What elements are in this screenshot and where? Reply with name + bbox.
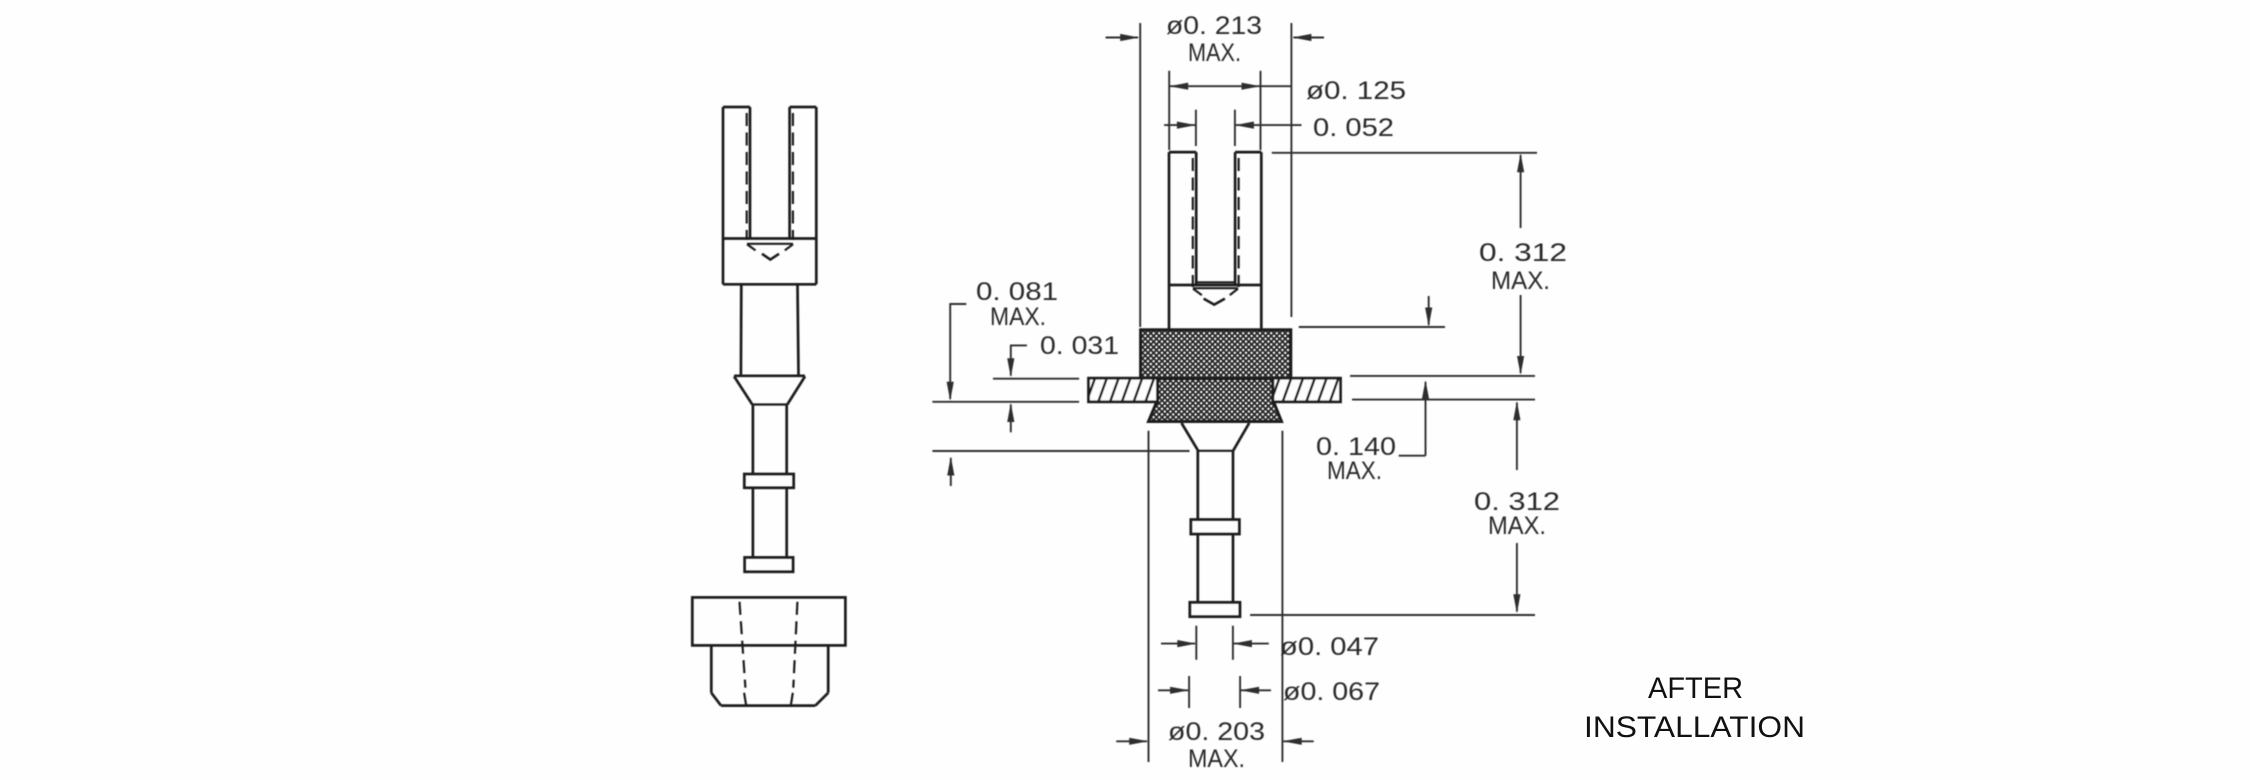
- dimension Ø0.125: extension lines above fork: [1169, 71, 1260, 150]
- left view: retention flange: [744, 474, 793, 488]
- middle view: panel left section (section-hatched): [1089, 378, 1158, 402]
- middle view: fork right prong: [1235, 152, 1261, 285]
- dimension 0.052: left arrow: [1164, 122, 1196, 129]
- left view: lower shaft upper segment: [753, 405, 787, 475]
- svg-text:MAX.: MAX.: [1488, 512, 1546, 540]
- left view: bushing body: [711, 645, 828, 692]
- left view: upper shaft: [741, 284, 799, 375]
- dimension 0.312 MAX top: panel-top extension line right: [1350, 375, 1535, 377]
- left view: lower shaft lower segment: [753, 488, 787, 558]
- middle view: end tip flange: [1190, 602, 1240, 616]
- dimension 0.140 MAX: upper arrow pointing down to bushing top: [1425, 296, 1432, 327]
- dimension Ø0.213 MAX: right extension line: [1290, 23, 1292, 317]
- middle view: retention flange: [1191, 520, 1240, 535]
- svg-text:ø0. 047: ø0. 047: [1280, 633, 1379, 661]
- dimension 0.140 MAX: label: [1316, 433, 1396, 485]
- funnel-bottom extension line left: [932, 450, 1189, 452]
- dimension Ø0.213 MAX: left arrow: [1106, 34, 1140, 41]
- dimension 0.312 MAX bottom: dimension line and arrows: [1513, 401, 1520, 613]
- dimension Ø0.067: extension lines at flange: [1189, 676, 1240, 708]
- middle view: hidden slot line left (dashed): [1192, 158, 1194, 287]
- dimension 0.052: extension lines above slot: [1196, 110, 1235, 146]
- panel-top extension line left: [993, 378, 1079, 380]
- svg-text:MAX.: MAX.: [1188, 39, 1241, 67]
- left view: slot bottom chamfer: [747, 244, 793, 251]
- svg-text:0. 031: 0. 031: [1040, 332, 1119, 360]
- middle view: bushing through panel and flared skirt (cross-hatched): [1149, 379, 1282, 422]
- left view: bushing flange (separate part): [692, 597, 845, 645]
- dimension 0.312 MAX bottom: label: [1474, 488, 1560, 540]
- dimension Ø0.047: extension lines below tip: [1196, 626, 1233, 660]
- middle view: fork left prong: [1169, 152, 1196, 285]
- dimension 0.140 MAX: hatch-top extension line: [1299, 326, 1445, 328]
- dimension 0.081 MAX: label: [976, 278, 1058, 331]
- dimension Ø0.203 MAX: right arrow: [1283, 738, 1314, 745]
- left view: center chevron mark: [762, 254, 779, 260]
- svg-text:0. 312: 0. 312: [1479, 239, 1567, 267]
- middle view: panel right section (section-hatched): [1273, 378, 1341, 402]
- panel-bottom extension line left: [932, 401, 1079, 403]
- dimension Ø0.213 MAX: left extension line: [1139, 23, 1141, 327]
- svg-text:MAX.: MAX.: [1327, 457, 1382, 485]
- svg-text:ø0. 213: ø0. 213: [1166, 12, 1262, 40]
- dimension Ø0.213 MAX: right arrow: [1292, 34, 1324, 41]
- left view: collar block: [723, 239, 816, 285]
- dimension Ø0.203 MAX: left arrow: [1116, 738, 1148, 745]
- left view: bushing hidden bore left (dashed): [740, 602, 746, 688]
- dimension 0.140 MAX: lower arrow pointing up to panel top: [1399, 380, 1429, 456]
- left view: hidden slot line left (dashed): [746, 113, 748, 240]
- dimension 0.031: bracket and down arrow to panel top: [1007, 345, 1027, 377]
- svg-text:AFTER: AFTER: [1648, 672, 1743, 705]
- dimension 0.081 MAX: bracket and down arrow to panel bottom: [947, 304, 967, 401]
- dimension Ø0.067: left arrow: [1158, 687, 1189, 694]
- caption AFTER INSTALLATION: [1584, 672, 1805, 744]
- middle view: knurled bushing flange above panel (cross-hatched): [1141, 330, 1291, 379]
- left view: fork right prong: [790, 107, 817, 239]
- left view: hidden slot line right (dashed): [792, 113, 794, 240]
- middle view: lower shaft lower segment: [1198, 534, 1233, 602]
- svg-text:ø0. 067: ø0. 067: [1283, 678, 1380, 706]
- svg-text:INSTALLATION: INSTALLATION: [1584, 711, 1805, 744]
- svg-text:MAX.: MAX.: [1491, 267, 1550, 295]
- dimension 0.312 MAX bottom: tip-bottom extension line right: [1250, 614, 1535, 616]
- dimension 0.312 MAX bottom: panel-bottom extension line right: [1352, 399, 1535, 401]
- middle view: funnel cone below bushing: [1182, 423, 1250, 451]
- dimension 0.312 MAX top: dimension line and arrows: [1517, 153, 1524, 375]
- dimension 0.052: right arrow: [1235, 122, 1302, 129]
- dimension Ø0.203 MAX: label: [1168, 718, 1265, 773]
- svg-text:MAX.: MAX.: [990, 303, 1046, 331]
- left view: bushing bottom chamfer: [711, 693, 828, 706]
- dimension Ø0.047: right arrow: [1233, 640, 1269, 647]
- svg-text:ø0. 125: ø0. 125: [1306, 77, 1406, 105]
- dimension 0.081 MAX: up arrow to funnel bottom line: [947, 457, 954, 487]
- middle view: collar block: [1169, 285, 1261, 330]
- dimension 0.031: up arrow to panel bottom: [1007, 403, 1014, 432]
- svg-text:ø0. 203: ø0. 203: [1168, 718, 1265, 746]
- middle view: center chevron mark: [1204, 299, 1225, 305]
- dimension 0.312 MAX top: label: [1479, 239, 1567, 295]
- left view: fork left prong: [723, 107, 750, 239]
- svg-text:0. 081: 0. 081: [976, 278, 1058, 306]
- middle view: hidden slot line right (dashed): [1237, 158, 1239, 287]
- left view: end tip flange: [745, 557, 794, 571]
- dimension Ø0.203 MAX: left extension line: [1148, 431, 1150, 762]
- middle view: slot bottom chamfer: [1193, 288, 1238, 295]
- dimension Ø0.125: dimension line with arrows: [1169, 83, 1291, 90]
- dimension Ø0.067: right arrow: [1240, 687, 1271, 694]
- dimension Ø0.203 MAX: right extension line: [1281, 431, 1283, 762]
- svg-text:0. 052: 0. 052: [1313, 114, 1394, 142]
- left view: bushing chamfer facet lines: [744, 693, 793, 706]
- svg-text:MAX.: MAX.: [1188, 745, 1245, 773]
- middle view: panel hatch lines: [1089, 378, 1339, 402]
- left view: funnel taper: [734, 376, 805, 405]
- middle view: slot bottom line: [1196, 281, 1235, 283]
- dimension 0.312 MAX top: fork-top extension line: [1272, 152, 1537, 154]
- middle view: lower shaft upper segment: [1198, 451, 1233, 520]
- dimension Ø0.047: left arrow: [1161, 640, 1196, 647]
- left view: bushing hidden bore right (dashed): [793, 602, 797, 688]
- dimension Ø0.213 MAX: label: [1166, 12, 1262, 67]
